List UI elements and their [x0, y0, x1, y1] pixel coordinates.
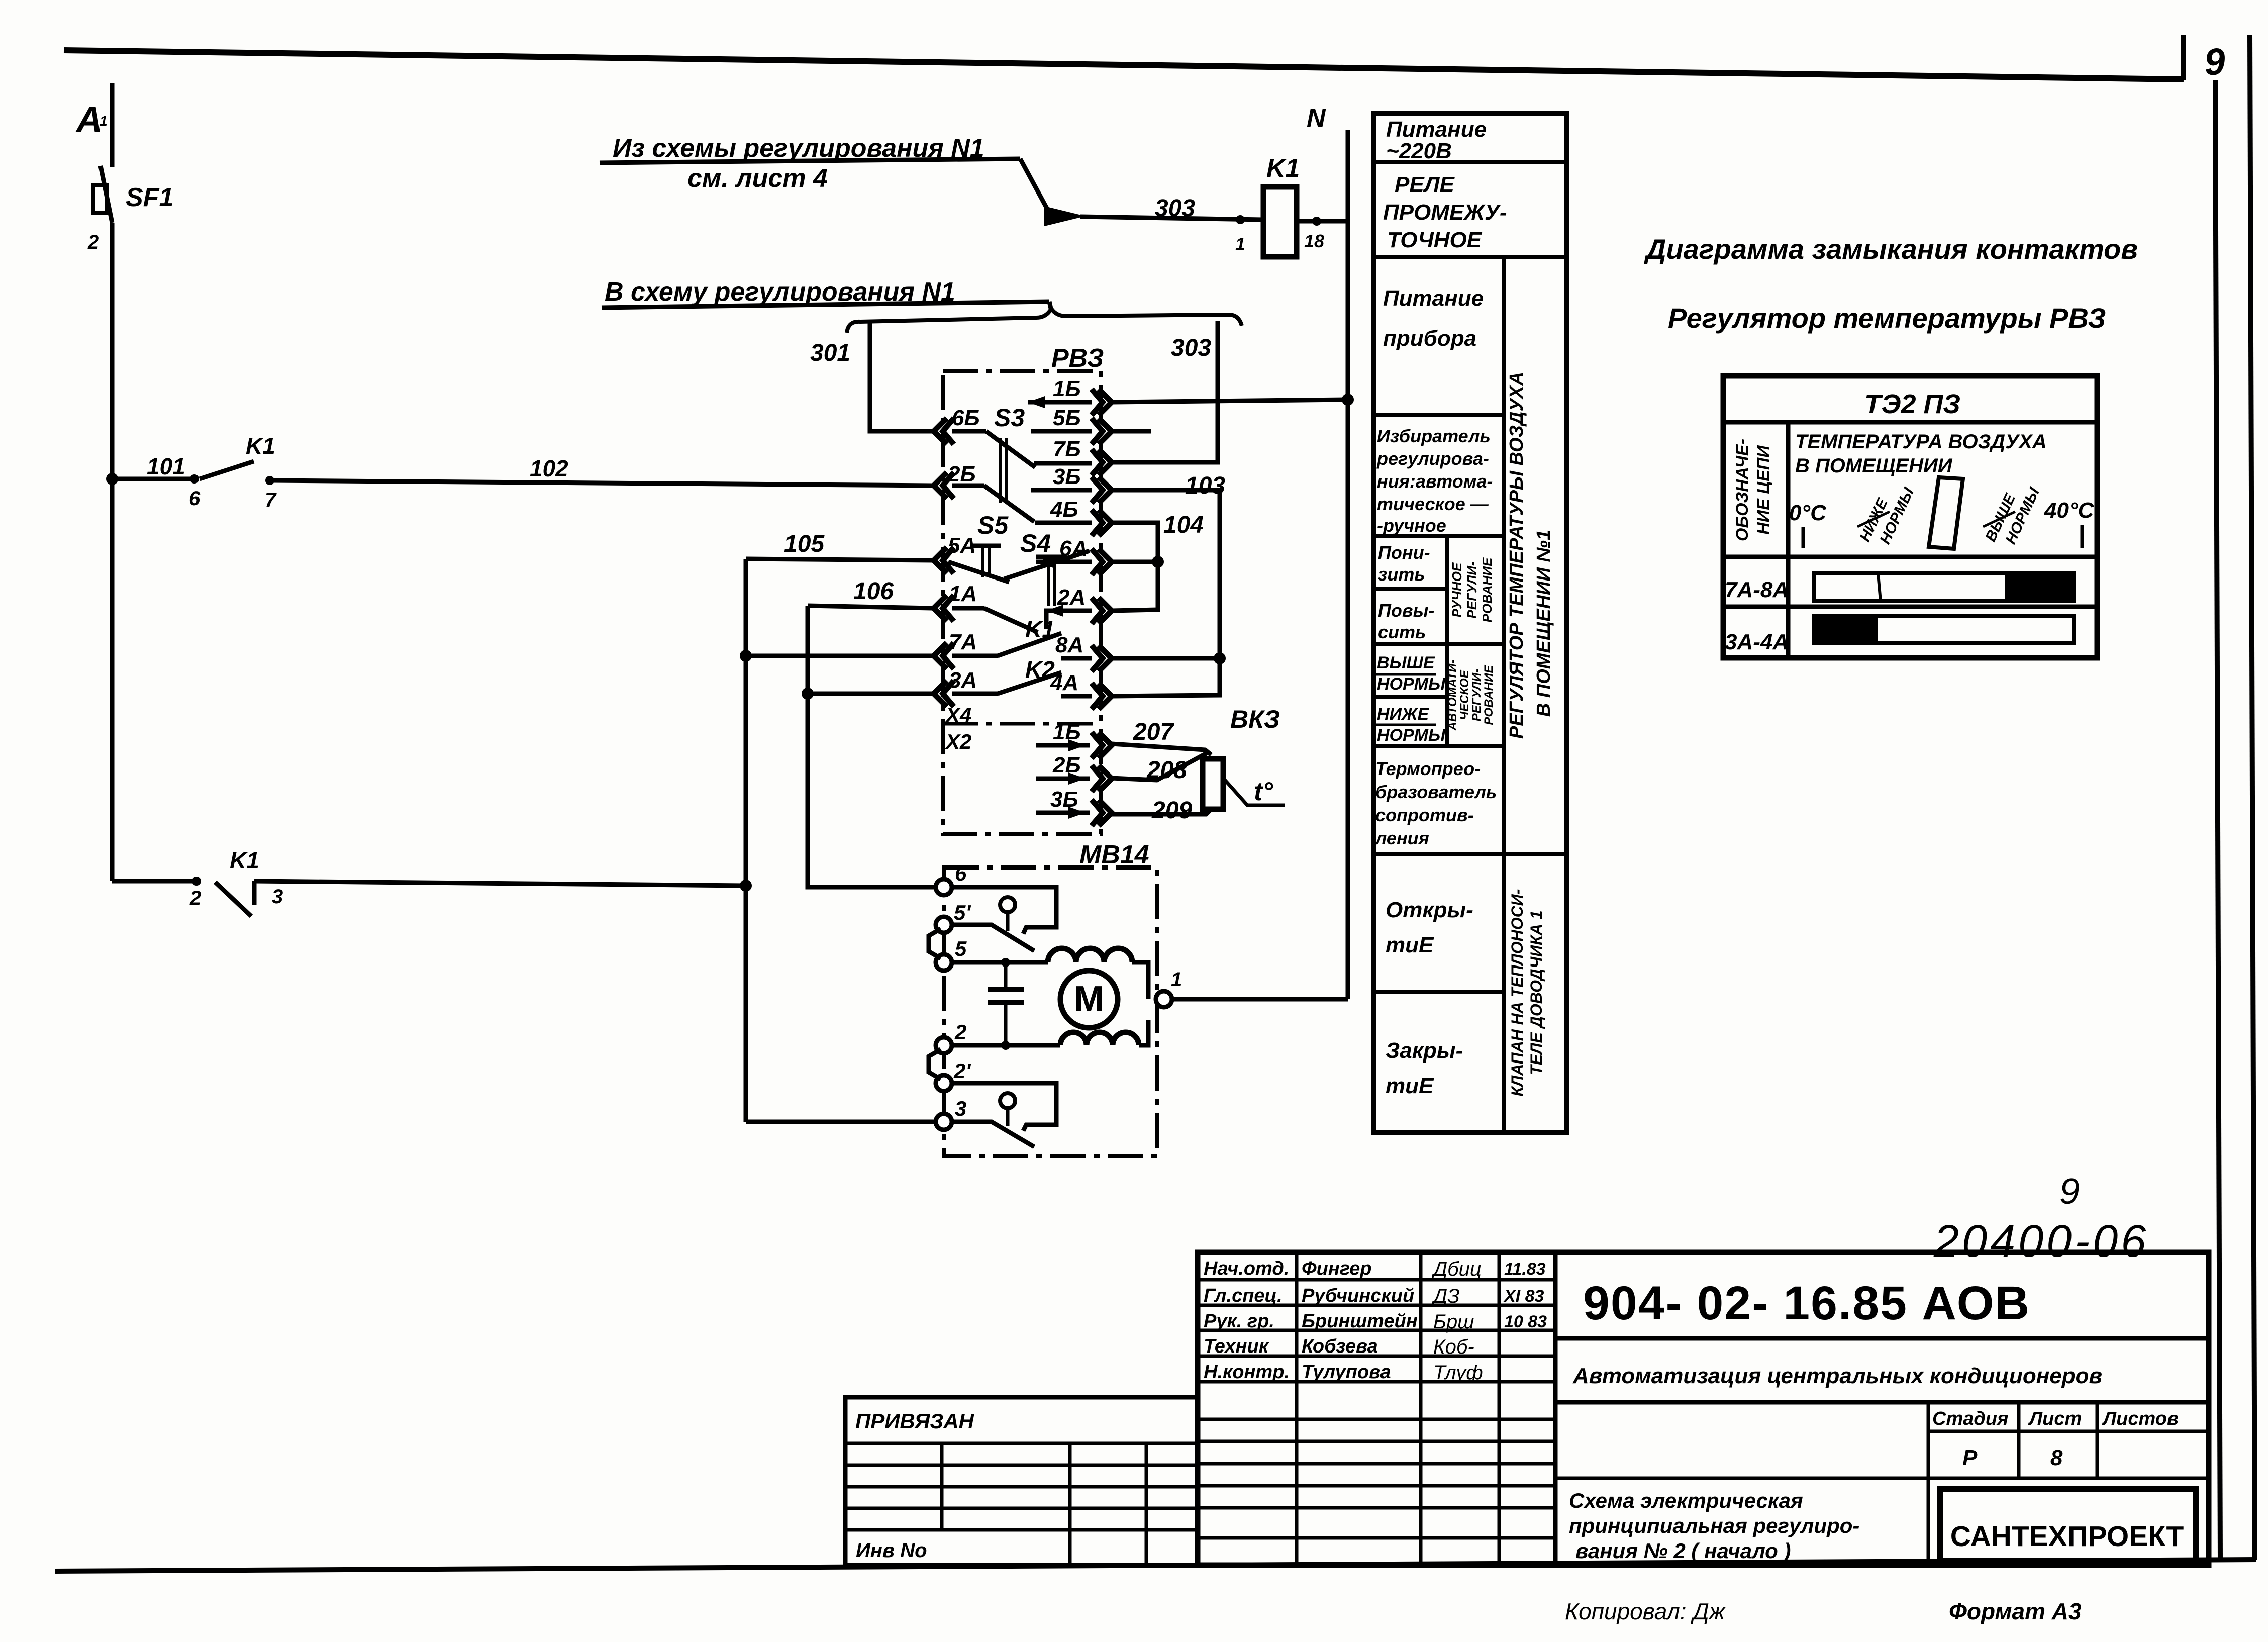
frame bottom border: [55, 1560, 2256, 1571]
svg-text:Формат А3: Формат А3: [1949, 1598, 2082, 1624]
terminal 3 МВ14: [936, 1114, 952, 1130]
svg-text:106: 106: [853, 578, 894, 605]
svg-text:102: 102: [530, 455, 568, 481]
svg-text:В ПОМЕЩЕНИИ №1: В ПОМЕЩЕНИИ №1: [1533, 530, 1554, 717]
svg-text:303: 303: [1155, 195, 1195, 222]
jumper 2-2p: [929, 1049, 941, 1079]
wire 2Б lower stub: [1036, 777, 1090, 781]
svg-text:Гл.спец.: Гл.спец.: [1204, 1285, 1283, 1306]
svg-text:Копировал: Дж: Копировал: Дж: [1565, 1598, 1726, 1624]
svg-text:Инв No: Инв No: [856, 1539, 927, 1562]
svg-text:Стадия: Стадия: [1932, 1408, 2008, 1429]
svg-text:ТЕЛЕ ДОВОДЧИКА 1: ТЕЛЕ ДОВОДЧИКА 1: [1527, 910, 1545, 1075]
svg-text:303: 303: [1171, 335, 1211, 361]
svg-text:3А: 3А: [949, 668, 977, 693]
svg-text:прибора: прибора: [1383, 326, 1476, 351]
limit switch upper blade: [951, 925, 1034, 951]
svg-text:0°С: 0°С: [1789, 501, 1827, 525]
frame right outer border: [2250, 35, 2255, 1560]
svg-text:НИЕ ЦЕПИ: НИЕ ЦЕПИ: [1754, 445, 1773, 535]
diagram table frame ТЭ2 ПЗ: [1723, 376, 2097, 658]
svg-text:КЛАПАН НА ТЕПЛОНОСИ-: КЛАПАН НА ТЕПЛОНОСИ-: [1508, 889, 1526, 1097]
svg-text:вания № 2 ( начало ): вания № 2 ( начало ): [1575, 1539, 1791, 1563]
wire to terminal 3: [746, 1120, 938, 1124]
wire bottom return to vertical 105: [254, 881, 746, 886]
wire 1Б stub: [1028, 400, 1092, 405]
svg-text:4Б: 4Б: [1050, 497, 1078, 522]
svg-text:принципиальная регулиро-: принципиальная регулиро-: [1569, 1514, 1859, 1537]
svg-text:7А-8А: 7А-8А: [1725, 577, 1789, 602]
svg-text:S5: S5: [977, 511, 1009, 539]
function table mid column line: [1445, 536, 1449, 746]
svg-text:ЧЕСКОЕ: ЧЕСКОЕ: [1458, 669, 1471, 720]
svg-text:3А-4А: 3А-4А: [1725, 630, 1789, 654]
motor M1: [1060, 971, 1118, 1028]
terminal 7Б: [1099, 449, 1112, 475]
svg-text:t°: t°: [1254, 777, 1273, 806]
svg-text:7Б: 7Б: [1053, 437, 1081, 461]
wire 5Б stub outside: [1112, 429, 1151, 434]
switch SF1: [101, 166, 112, 223]
svg-text:X2: X2: [945, 730, 971, 753]
svg-text:НОРМЫ: НОРМЫ: [1377, 674, 1446, 694]
svg-text:РЕЛЕ: РЕЛЕ: [1395, 172, 1455, 197]
svg-text:Диаграмма замыкания контакто: Диаграмма замыкания контактов: [1644, 233, 2138, 265]
terminal 5' МВ14: [936, 917, 952, 933]
svg-text:11.83: 11.83: [1504, 1260, 1546, 1279]
logo САНТЕХПРОЕКТ: [1940, 1489, 2196, 1561]
svg-text:НОРМЫ: НОРМЫ: [1377, 726, 1446, 745]
svg-text:Брш: Брш: [1433, 1311, 1474, 1333]
svg-text:Регулятор температуры РВЗ: Регулятор температуры РВЗ: [1668, 302, 2106, 334]
svg-text:Кобзева: Кобзева: [1302, 1336, 1378, 1357]
svg-text:М: М: [1074, 979, 1104, 1019]
svg-text:зить: зить: [1378, 564, 1425, 585]
svg-text:SF1: SF1: [126, 183, 173, 212]
title block signature grid: [1198, 1278, 1555, 1282]
svg-text:тиЕ: тиЕ: [1386, 1074, 1434, 1098]
svg-text:5': 5': [954, 901, 971, 924]
limit switch upper fixed: [951, 887, 1056, 934]
frame top border: [64, 50, 2184, 79]
terminal 7А: [934, 643, 947, 669]
motor M1 winding top: [1048, 948, 1132, 962]
svg-text:РЕГУЛИ-: РЕГУЛИ-: [1464, 561, 1480, 618]
terminal 3Б: [1099, 477, 1112, 503]
terminal 3Б lower: [1099, 800, 1112, 826]
svg-text:S3: S3: [994, 404, 1025, 432]
svg-text:ления: ления: [1374, 828, 1429, 848]
svg-text:Схема электрическая: Схема электрическая: [1569, 1489, 1803, 1512]
привязан block: [845, 1397, 1198, 1565]
svg-text:см. лист 4: см. лист 4: [687, 164, 828, 193]
wire 105 drop: [746, 559, 932, 560]
svg-text:5Б: 5Б: [1053, 406, 1081, 430]
terminal 2' МВ14: [936, 1075, 952, 1091]
svg-text:Питание: Питание: [1383, 286, 1484, 311]
svg-text:ВКЗ: ВКЗ: [1230, 705, 1280, 733]
svg-text:САНТЕХПРОЕКТ: САНТЕХПРОЕКТ: [1950, 1520, 2184, 1553]
svg-text:K1: K1: [230, 847, 259, 874]
svg-text:ДЗ: ДЗ: [1431, 1285, 1460, 1307]
svg-text:105: 105: [784, 531, 825, 557]
svg-text:сить: сить: [1378, 622, 1426, 642]
terminal 4Б: [1099, 510, 1112, 536]
wire 1Б to N: [1112, 400, 1348, 402]
svg-text:регулирова-: регулирова-: [1376, 448, 1489, 469]
terminal 1Б: [1099, 389, 1112, 415]
doc title Автоматизация: [1555, 1400, 2209, 1405]
svg-text:ТЭ2 ПЗ: ТЭ2 ПЗ: [1864, 389, 1960, 419]
svg-text:3Б: 3Б: [1053, 464, 1081, 489]
svg-text:A: A: [75, 100, 103, 140]
svg-text:Тулупова: Тулупова: [1302, 1362, 1391, 1383]
svg-text:XI 83: XI 83: [1503, 1287, 1544, 1306]
svg-text:Н.контр.: Н.контр.: [1204, 1362, 1290, 1383]
svg-text:1: 1: [1235, 234, 1245, 254]
wire 102: [270, 480, 932, 486]
jumper 5p-5: [929, 929, 941, 958]
svg-text:Бринштейн: Бринштейн: [1302, 1311, 1418, 1332]
svg-text:18: 18: [1304, 231, 1324, 251]
svg-text:-ручное: -ручное: [1377, 515, 1446, 536]
terminal 6Б: [934, 418, 947, 444]
diagram setpoint parallelogram: [1929, 477, 1963, 549]
svg-text:104: 104: [1163, 512, 1204, 538]
limit switch lower fixed: [951, 1083, 1056, 1131]
brace: [847, 309, 1242, 333]
svg-text:5: 5: [955, 937, 967, 960]
wire terminal 5: [951, 960, 1048, 965]
svg-text:3Б: 3Б: [1050, 787, 1078, 812]
svg-text:РОВАНИЕ: РОВАНИЕ: [1482, 664, 1496, 725]
svg-text:Питание: Питание: [1386, 117, 1487, 142]
wire 6А stub: [1036, 560, 1092, 564]
terminal 5А: [934, 547, 947, 573]
svg-text:3: 3: [272, 886, 283, 908]
svg-text:207: 207: [1133, 719, 1174, 745]
svg-text:301: 301: [810, 340, 850, 366]
wire left bus upper: [110, 83, 115, 167]
terminal 2Б: [934, 472, 947, 499]
terminal 5Б: [1099, 418, 1112, 444]
svg-text:X4: X4: [945, 703, 971, 727]
svg-text:тиЕ: тиЕ: [1386, 933, 1434, 957]
svg-text:Избиратель: Избиратель: [1377, 426, 1491, 446]
wire 1Б lower stub: [1036, 743, 1090, 748]
title block outer: [1198, 1252, 2209, 1565]
svg-text:904- 02- 16.85 АОВ: 904- 02- 16.85 АОВ: [1583, 1277, 2030, 1330]
terminal 5 МВ14: [936, 954, 952, 971]
svg-text:209: 209: [1151, 797, 1192, 824]
terminal 1 МВ14: [1156, 991, 1172, 1007]
wire 303 top: [1080, 217, 1263, 220]
wire coil to N: [1297, 219, 1348, 224]
svg-text:бразователь: бразователь: [1375, 782, 1497, 802]
contact 1А blade: [952, 606, 984, 611]
contact K1 (2-3): [112, 879, 196, 884]
svg-text:2': 2': [953, 1059, 971, 1083]
svg-text:6: 6: [189, 488, 201, 510]
wire 7А row: [746, 654, 932, 658]
svg-text:2: 2: [954, 1020, 966, 1044]
svg-text:3: 3: [955, 1097, 966, 1120]
svg-text:1Б: 1Б: [1053, 720, 1081, 744]
wire 3Б lower stub: [1036, 811, 1090, 815]
svg-text:Лист: Лист: [2028, 1408, 2082, 1429]
terminal 1Б lower: [1099, 732, 1112, 758]
actuator МВ14 boundary: [944, 867, 1157, 1156]
svg-text:1А: 1А: [949, 582, 977, 606]
svg-text:РЕГУЛЯТОР ТЕМПЕРАТУРЫ ВОЗДУХ: РЕГУЛЯТОР ТЕМПЕРАТУРЫ ВОЗДУХА: [1506, 372, 1527, 739]
svg-text:В ПОМЕЩЕНИИ: В ПОМЕЩЕНИИ: [1795, 455, 1953, 477]
wire 106 drop to terminal 6: [808, 606, 932, 608]
svg-text:S4: S4: [1020, 529, 1051, 557]
svg-text:тическое —: тическое —: [1377, 494, 1489, 514]
svg-text:ОБОЗНАЧЕ-: ОБОЗНАЧЕ-: [1733, 439, 1752, 541]
svg-text:8А: 8А: [1055, 633, 1083, 657]
svg-text:2: 2: [189, 887, 201, 909]
svg-text:ТОЧНОЕ: ТОЧНОЕ: [1387, 228, 1483, 252]
wire 3А row: [808, 692, 932, 696]
svg-text:1: 1: [1171, 969, 1182, 991]
limit switch lower blade: [951, 1122, 1034, 1147]
svg-text:9: 9: [2059, 1172, 2080, 1212]
switch S3 lower section: [952, 484, 984, 488]
svg-text:Пони-: Пони-: [1378, 542, 1430, 563]
svg-text:101: 101: [147, 453, 185, 479]
svg-text:ПРИВЯЗАН: ПРИВЯЗАН: [855, 1409, 975, 1433]
svg-text:Автоматизация центральных ко: Автоматизация центральных кондиционеров: [1572, 1364, 2102, 1388]
svg-text:K1: K1: [246, 433, 275, 459]
svg-text:Коб-: Коб-: [1433, 1336, 1474, 1358]
switch S3 linkage: [999, 438, 1002, 503]
wire 2А stub: [1046, 611, 1092, 629]
svg-text:ВЫШЕ: ВЫШЕ: [1377, 653, 1435, 672]
wire 101: [112, 477, 194, 481]
svg-text:Р: Р: [1962, 1445, 1978, 1470]
terminal 6 МВ14: [936, 879, 952, 895]
limit switch lower actuator: [1000, 1093, 1015, 1108]
svg-text:20400-06: 20400-06: [1933, 1216, 2149, 1267]
svg-text:1Б: 1Б: [1053, 376, 1081, 401]
svg-text:6: 6: [955, 861, 967, 885]
terminal 4А: [1099, 683, 1112, 709]
svg-text:N: N: [1307, 104, 1326, 133]
relay coil K1: [1263, 187, 1297, 257]
svg-text:Закры-: Закры-: [1386, 1038, 1463, 1063]
svg-text:ния:автома-: ния:автома-: [1377, 471, 1493, 492]
svg-text:40°С: 40°С: [2044, 498, 2095, 523]
svg-text:10 83: 10 83: [1504, 1312, 1547, 1331]
svg-text:Рубчинский: Рубчинский: [1302, 1285, 1414, 1306]
svg-text:РОВАНИЕ: РОВАНИЕ: [1480, 557, 1495, 623]
svg-text:Листов: Листов: [2102, 1408, 2179, 1429]
svg-text:Тлуф: Тлуф: [1433, 1362, 1483, 1384]
svg-text:6Б: 6Б: [952, 406, 980, 430]
svg-text:Повы-: Повы-: [1378, 600, 1434, 621]
terminal 2Б lower: [1099, 765, 1112, 792]
connector X4/X2 separator: [943, 722, 1101, 726]
device РВЗ boundary: [943, 371, 1101, 834]
svg-text:РЕГУЛИ-: РЕГУЛИ-: [1470, 669, 1484, 721]
wire N vertical: [1346, 130, 1350, 999]
svg-text:Нач.отд.: Нач.отд.: [1204, 1258, 1289, 1279]
capacitor: [1004, 962, 1008, 989]
стадия лист листов: [1927, 1402, 1930, 1565]
wire 6А: [1112, 560, 1158, 564]
function table vertical-text column line: [1502, 257, 1506, 1132]
contact K1 (6-7): [190, 474, 199, 484]
svg-text:Техник: Техник: [1204, 1336, 1269, 1357]
motor M1 winding bottom: [1060, 1032, 1139, 1045]
svg-text:НИЖЕ: НИЖЕ: [1377, 705, 1430, 724]
svg-text:ПРОМЕЖУ-: ПРОМЕЖУ-: [1383, 200, 1507, 225]
svg-text:~220В: ~220В: [1386, 139, 1452, 163]
svg-text:РУЧНОЕ: РУЧНОЕ: [1449, 562, 1464, 617]
node junction 101: [106, 473, 118, 485]
t callout: [1223, 778, 1285, 805]
svg-text:АВТОМАТИ-: АВТОМАТИ-: [1446, 660, 1459, 731]
svg-text:2Б: 2Б: [947, 462, 976, 487]
svg-text:Откры-: Откры-: [1386, 898, 1473, 922]
limit switch upper actuator: [1000, 897, 1015, 912]
svg-text:сопротив-: сопротив-: [1375, 805, 1474, 825]
svg-text:РВЗ: РВЗ: [1051, 344, 1104, 373]
svg-text:9: 9: [2203, 40, 2227, 83]
terminal 1А: [934, 595, 947, 621]
sheet number box 9: [2181, 35, 2186, 80]
svg-text:ТЕМПЕРАТУРА ВОЗДУХА: ТЕМПЕРАТУРА ВОЗДУХА: [1795, 431, 2047, 453]
svg-text:8: 8: [2050, 1445, 2063, 1470]
svg-text:Фингер: Фингер: [1302, 1258, 1372, 1279]
svg-text:1: 1: [100, 113, 108, 129]
svg-text:7А: 7А: [949, 630, 977, 654]
terminal 3А: [934, 681, 947, 707]
function table frame: [1373, 114, 1567, 1132]
svg-text:Дбиц: Дбиц: [1431, 1258, 1482, 1280]
terminal 8А: [1099, 645, 1112, 671]
doc number 904-02-16.85 АОВ: [1555, 1336, 2209, 1341]
wire motor to N: [1171, 997, 1348, 1002]
svg-text:Термопрео-: Термопрео-: [1375, 758, 1481, 779]
terminal 2 МВ14: [936, 1037, 952, 1053]
svg-text:K1: K1: [1266, 154, 1300, 183]
svg-text:7: 7: [265, 489, 277, 511]
frame right inner border: [2215, 80, 2220, 1560]
terminal 2А: [1099, 598, 1112, 624]
wire terminal 2: [951, 1043, 1060, 1048]
svg-text:МВ14: МВ14: [1079, 840, 1149, 870]
wire 8А: [1112, 656, 1220, 661]
sheet title Схема электрическая: [1555, 1477, 1928, 1480]
svg-text:2Б: 2Б: [1052, 753, 1081, 778]
terminal 6А: [1099, 549, 1112, 575]
wire left bus lower: [110, 223, 115, 881]
svg-text:2: 2: [87, 231, 99, 253]
svg-text:Рук. гр.: Рук. гр.: [1204, 1311, 1274, 1332]
